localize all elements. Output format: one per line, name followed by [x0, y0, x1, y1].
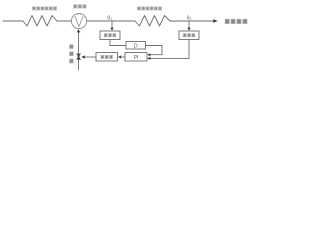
- differentiator box D: [126, 42, 146, 50]
- arrowhead: theta2 signal into PI: [147, 57, 150, 60]
- label: to steam turbine: [225, 19, 248, 24]
- label: superheater low-temp section: [32, 6, 57, 10]
- transmitter 2 text (bian song qi): [183, 33, 195, 37]
- svg-text:PI: PI: [134, 55, 139, 61]
- arrowhead: actuator onto valve: [81, 55, 84, 58]
- wire: desuperheater to right coil: [87, 20, 135, 22]
- wire: D output loop to PI upper input: [146, 46, 163, 55]
- wire: PI to actuator: [121, 56, 125, 58]
- wire: transmitter1 to differentiator D: [110, 40, 126, 46]
- coil: superheater high-temperature section: [135, 16, 170, 27]
- spray dots inside desuperheater: [76, 14, 81, 15]
- arrowhead: to steam turbine: [213, 19, 218, 23]
- label: superheater high-temp section: [137, 6, 162, 10]
- arrowhead: PI into actuator: [118, 55, 121, 58]
- spray water pipe: [78, 32, 80, 71]
- transmitter box 1: [100, 31, 120, 40]
- transmitter box 2: [179, 31, 199, 40]
- arrowhead: D into PI: [147, 53, 150, 56]
- node theta1: junction wire down: [111, 21, 113, 28]
- arrowhead: water into desuperheater: [77, 29, 80, 32]
- node theta2: junction wire down: [188, 21, 190, 28]
- wire: coil to desuperheater: [57, 20, 71, 22]
- label: spray water (vertical): [69, 44, 73, 63]
- control valve on water pipe: [76, 54, 81, 60]
- label: desuperheater: [73, 4, 86, 8]
- wire: actuator to valve: [85, 56, 96, 58]
- svg-text:θ2: θ2: [187, 15, 192, 21]
- wire: coil to turbine arrow: [170, 20, 214, 22]
- svg-text:θ1: θ1: [107, 15, 112, 21]
- actuator box (zhi xing qi): [96, 53, 118, 62]
- transmitter 1 text (bian song qi): [104, 33, 116, 37]
- desuperheater (circle with spray nozzle): [71, 13, 86, 28]
- arrowhead into transmitter 2: [187, 28, 190, 31]
- svg-text:D: D: [134, 43, 138, 49]
- wire: transmitter2 down/left to PI lower input: [150, 40, 189, 59]
- regulator box PI: [125, 53, 147, 62]
- coil: superheater low-temperature section: [23, 16, 57, 27]
- wire: steam line left lead: [3, 20, 23, 22]
- actuator text (zhi xing qi): [101, 55, 113, 59]
- arrowhead into transmitter 1: [110, 28, 113, 31]
